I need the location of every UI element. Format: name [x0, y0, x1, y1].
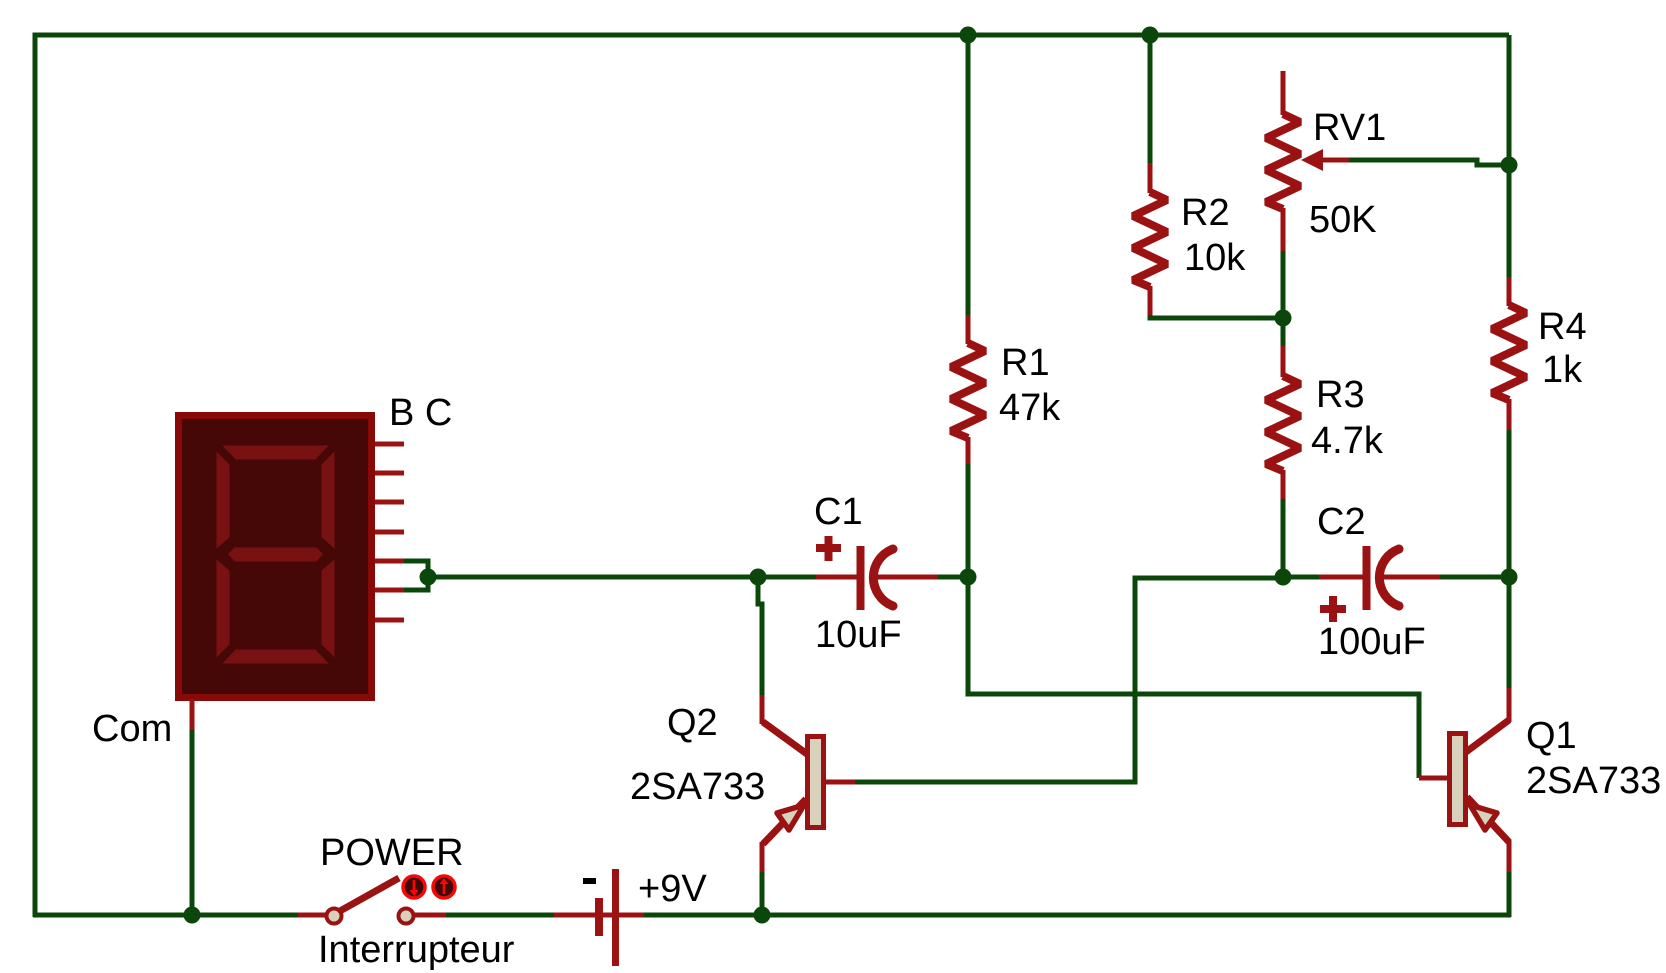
transistor Q1 [1419, 688, 1509, 872]
display pin 5 (B) [375, 559, 404, 564]
wire right vertical upper (top border to R4) [1507, 35, 1512, 279]
junction node (C2 right / right rail) [1501, 569, 1518, 586]
junction node (R3 / C2 left) [1275, 569, 1292, 586]
wire R1 bottom to C1 junction [966, 462, 971, 577]
wire display segment hook [404, 561, 428, 590]
resistor R2 [1133, 163, 1167, 315]
wire display to C1 [428, 575, 817, 580]
junction node (R2/RV1/R3) [1275, 310, 1292, 327]
wire Q2 base to center column [854, 578, 1283, 782]
wire Q2 collector jog [758, 577, 762, 697]
svg-text:50K: 50K [1309, 199, 1377, 241]
wire bottom left segment [33, 913, 300, 918]
svg-text:C1: C1 [814, 491, 863, 533]
wire right vertical (C2 junction to Q1 collector) [1507, 577, 1512, 697]
svg-text:R1: R1 [1001, 342, 1050, 384]
junction node (battery / Q2 emitter) [754, 907, 771, 924]
resistor R4 [1492, 277, 1526, 430]
segment A [219, 444, 332, 461]
junction node (R2 top) [1142, 27, 1159, 44]
wire R1 column top [966, 35, 971, 317]
segment E [215, 556, 231, 661]
switch toggle button up [433, 876, 455, 898]
junction node (Q2 collector) [750, 569, 767, 586]
segment F [215, 448, 231, 552]
junction node (RV1 wiper / right rail) [1501, 157, 1518, 174]
wire junction to R3 top [1281, 318, 1286, 348]
resistor R3 [1266, 346, 1300, 499]
display Com pin stub [190, 699, 195, 730]
capacitor C2 [1319, 546, 1440, 622]
svg-text:4.7k: 4.7k [1311, 420, 1384, 462]
wire display Com pin down [190, 728, 195, 917]
resistor R1 [951, 315, 985, 464]
display pin 2 [375, 471, 404, 476]
svg-text:Q2: Q2 [667, 702, 718, 744]
wire R2 bottom elbow to RV1 junction [1150, 313, 1283, 318]
svg-text:R2: R2 [1181, 192, 1230, 234]
svg-text:Com: Com [92, 708, 172, 750]
svg-text:10uF: 10uF [815, 614, 902, 656]
switch toggle button down [403, 876, 425, 898]
junction node (display segments) [420, 569, 437, 586]
segment G [226, 546, 325, 563]
wiper arrow [1306, 158, 1349, 163]
wire C2 left lead [1283, 575, 1321, 580]
wire Q2 emitter to bottom [760, 870, 765, 917]
segment D [219, 648, 332, 665]
segment B [320, 448, 336, 552]
display pin 6 (C) [375, 588, 404, 593]
svg-text:Q1: Q1 [1526, 715, 1577, 757]
junction node (C1 right / R1) [960, 569, 977, 586]
wire right vertical (R4 to C2 junction) [1507, 428, 1512, 577]
wire RV1 wiper to right vertical [1348, 160, 1509, 165]
svg-text:R4: R4 [1538, 306, 1587, 348]
display pin 3 [375, 500, 404, 505]
svg-text:R3: R3 [1316, 374, 1365, 416]
wire C1 junction down and across to Q1 base [968, 577, 1419, 778]
display pin 7 [375, 618, 404, 623]
junction node (R1 top) [960, 27, 977, 44]
wire R2 column top [1148, 35, 1153, 165]
capacitor C1 [816, 536, 938, 610]
C2 plus sign [1320, 605, 1346, 613]
battery minus sign [583, 878, 596, 884]
svg-text:100uF: 100uF [1318, 621, 1426, 663]
svg-text:RV1: RV1 [1313, 107, 1386, 149]
wire RV1 bottom to junction [1281, 249, 1286, 320]
display pin 1 [375, 442, 404, 447]
svg-text:47k: 47k [999, 387, 1061, 429]
svg-text:2SA733: 2SA733 [630, 766, 765, 808]
svg-text:B C: B C [389, 392, 452, 434]
svg-text:POWER: POWER [320, 832, 464, 874]
wire C1 right lead to junction [936, 575, 970, 580]
7-segment display DS1 body [179, 416, 372, 698]
wire C2 right lead to junction [1438, 575, 1509, 580]
junction node (Com / bottom rail) [184, 907, 201, 924]
svg-text:2SA733: 2SA733 [1526, 760, 1661, 802]
display pin 4 [375, 530, 404, 535]
svg-text:10k: 10k [1184, 237, 1246, 279]
svg-text:Interrupteur: Interrupteur [318, 929, 515, 971]
svg-text:C2: C2 [1317, 501, 1366, 543]
switch SW1 (Interrupteur) [298, 876, 455, 924]
wire bottom middle segment (switch to battery) [445, 913, 556, 918]
C1 plus sign [816, 544, 841, 552]
potentiometer RV1 [1266, 71, 1349, 251]
transistor Q2 [762, 695, 855, 872]
wire bottom right segment [643, 913, 1511, 918]
segment C [320, 556, 336, 661]
wire R3 bottom to C2 junction [1281, 497, 1286, 577]
svg-text:+9V: +9V [638, 868, 707, 910]
wire Q1 emitter to bottom [1507, 870, 1512, 917]
battery BT1 [554, 869, 644, 966]
svg-text:1k: 1k [1542, 349, 1583, 391]
